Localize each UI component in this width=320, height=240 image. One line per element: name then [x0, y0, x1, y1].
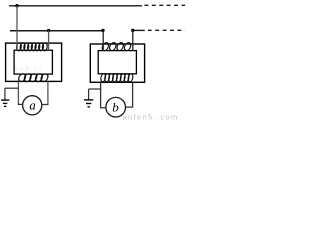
svg-text:eoo.cc: eoo.cc [15, 66, 45, 73]
svg-text:a: a [29, 97, 36, 112]
svg-text:anfen5. com: anfen5. com [123, 113, 179, 122]
svg-text:b: b [112, 100, 119, 115]
